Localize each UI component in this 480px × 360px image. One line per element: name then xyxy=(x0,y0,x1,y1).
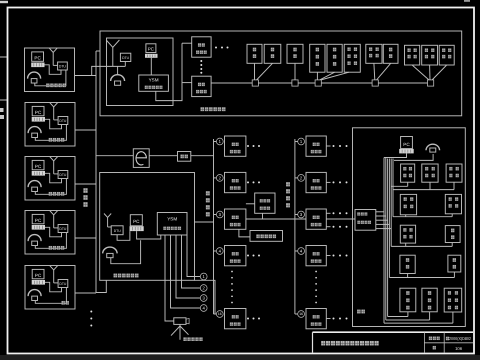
svg-text:PC: PC xyxy=(403,142,410,147)
svg-text:DTU: DTU xyxy=(59,65,67,69)
svg-text:YSM: YSM xyxy=(149,78,159,83)
svg-text:2000(X)D802: 2000(X)D802 xyxy=(449,336,472,341)
svg-text:PC: PC xyxy=(133,219,140,224)
svg-text:PC: PC xyxy=(35,218,42,223)
svg-text:PC: PC xyxy=(34,55,41,60)
svg-text:DTU: DTU xyxy=(59,119,67,123)
svg-text:DTU: DTU xyxy=(59,282,67,286)
svg-text:DTU: DTU xyxy=(122,56,130,60)
svg-text:PC: PC xyxy=(148,47,154,52)
svg-text:YSM: YSM xyxy=(167,216,177,221)
svg-text:16: 16 xyxy=(218,312,222,316)
svg-text:DTU: DTU xyxy=(59,173,67,177)
svg-text:PC: PC xyxy=(35,273,42,278)
svg-text:16: 16 xyxy=(299,312,303,316)
svg-text:DTU: DTU xyxy=(59,227,67,231)
svg-text:DTU: DTU xyxy=(114,229,122,233)
svg-text:PC: PC xyxy=(35,110,42,115)
svg-text:106: 106 xyxy=(455,346,463,351)
svg-text:PC: PC xyxy=(35,164,42,169)
